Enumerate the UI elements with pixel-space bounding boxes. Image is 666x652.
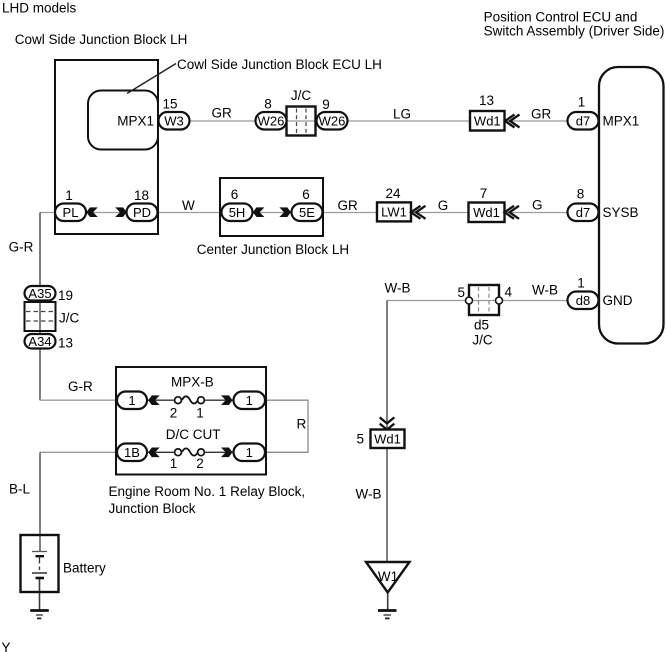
svg-text:MPX1: MPX1 <box>603 114 640 129</box>
svg-text:15: 15 <box>162 97 177 112</box>
ground below battery <box>30 609 49 612</box>
chevrons right of LW1 <box>411 206 426 219</box>
svg-text:Junction Block: Junction Block <box>109 501 196 516</box>
arrow pair D/C CUT <box>148 448 160 458</box>
svg-text:1: 1 <box>65 188 73 203</box>
svg-text:PL: PL <box>63 205 79 220</box>
arrow pair MPX-B <box>148 395 160 405</box>
leader line to Cowl Side Junction Block ECU LH <box>127 64 176 94</box>
svg-text:R: R <box>297 417 307 432</box>
block Engine Room No.1 Relay Block <box>116 367 266 475</box>
wire row3 W-B (x387 to d8) <box>387 300 568 302</box>
connector d7 pin 8 <box>568 204 599 222</box>
svg-text:8: 8 <box>577 187 585 202</box>
svg-text:13: 13 <box>479 93 494 108</box>
svg-text:5: 5 <box>458 285 466 300</box>
connector 5E pin 6 <box>292 204 323 222</box>
svg-text:9: 9 <box>322 97 330 112</box>
svg-text:5H: 5H <box>229 205 246 220</box>
svg-text:Position Control ECU and: Position Control ECU and <box>484 10 638 25</box>
connector A35 pin 19 <box>25 286 56 301</box>
splice Wd1 pin 5 <box>371 430 405 449</box>
J/C junction box top (W26) <box>287 107 316 136</box>
svg-text:W-B: W-B <box>532 283 558 298</box>
svg-text:W1: W1 <box>378 569 398 584</box>
svg-text:d7: d7 <box>576 205 590 220</box>
J/C junction box d5 <box>469 285 499 315</box>
connector PL pin 1 <box>55 204 86 222</box>
ECU MPX1 rounded block inside cowl block <box>88 91 158 150</box>
J/C junction box A35/A34 <box>25 302 56 331</box>
wire battery bottom to ground <box>39 578 41 611</box>
wire R loop <box>266 400 309 452</box>
svg-text:W-B: W-B <box>356 487 382 502</box>
svg-text:d8: d8 <box>576 293 590 308</box>
wire G-R vertical (PL junction down to relay row) <box>39 213 41 401</box>
svg-text:GND: GND <box>603 293 633 308</box>
svg-text:1: 1 <box>196 406 204 421</box>
connector W26 pin 9 <box>317 112 348 130</box>
contact D/C CUT circles and wave <box>175 449 182 456</box>
svg-text:GR: GR <box>338 198 359 213</box>
svg-text:W-B: W-B <box>385 281 411 296</box>
svg-text:13: 13 <box>58 336 73 351</box>
wire relay D/C CUT internal left <box>147 451 175 453</box>
ground symbol below W1 <box>378 609 397 612</box>
contact MPX-B circles and wave <box>175 397 182 404</box>
relay terminal 1B (D/C CUT left) <box>117 444 147 462</box>
chevrons above Wd1 pin5 <box>380 417 395 429</box>
wire W1 apex to ground <box>387 593 389 611</box>
svg-text:5E: 5E <box>299 205 315 220</box>
svg-text:J/C: J/C <box>291 88 312 103</box>
connector PD pin 18 <box>127 204 158 222</box>
splice Wd1 pin 13 (row1) <box>470 111 505 131</box>
svg-text:2: 2 <box>170 406 178 421</box>
svg-text:1: 1 <box>246 393 253 408</box>
connector A34 pin 13 <box>25 334 56 349</box>
svg-text:A34: A34 <box>28 334 51 349</box>
svg-text:Center Junction Block LH: Center Junction Block LH <box>197 242 349 257</box>
connector 5H pin 6 <box>222 204 253 222</box>
relay terminal 1 (D/C CUT right) <box>234 444 266 462</box>
svg-text:Wd1: Wd1 <box>474 114 501 129</box>
arrow pair PL-PD <box>86 207 98 217</box>
connector d8 pin 1 <box>568 292 599 310</box>
chevrons right of Wd1 row2 <box>505 206 520 219</box>
svg-text:LW1: LW1 <box>381 205 407 220</box>
wire relay MPX-B internal right <box>205 399 233 401</box>
svg-text:G-R: G-R <box>9 240 34 255</box>
block Cowl Side Junction Block LH <box>55 60 158 234</box>
svg-text:Battery: Battery <box>63 561 106 576</box>
connector d7 pin 1 <box>568 112 599 130</box>
svg-text:G: G <box>438 198 449 213</box>
svg-text:SYSB: SYSB <box>603 205 639 220</box>
svg-text:5: 5 <box>357 432 365 447</box>
svg-text:19: 19 <box>58 288 73 303</box>
svg-text:1: 1 <box>128 393 135 408</box>
relay terminal 1 (MPX-B left) <box>117 392 147 410</box>
connector W3 pin 15 <box>159 112 190 130</box>
svg-text:A35: A35 <box>28 286 51 301</box>
svg-text:W: W <box>182 198 195 213</box>
svg-text:6: 6 <box>231 187 239 202</box>
svg-text:Cowl Side Junction Block LH: Cowl Side Junction Block LH <box>15 32 188 47</box>
svg-text:W3: W3 <box>164 113 184 128</box>
svg-text:d5: d5 <box>474 318 489 333</box>
wire B-L vertical down to battery <box>39 452 41 551</box>
d5 pin 5 circle <box>466 297 473 304</box>
svg-text:W26: W26 <box>319 113 346 128</box>
svg-text:d7: d7 <box>576 113 590 128</box>
svg-text:Engine Room No. 1 Relay Block,: Engine Room No. 1 Relay Block, <box>109 484 306 499</box>
svg-text:J/C: J/C <box>59 311 80 326</box>
wire W-B vertical (Wd1 pin5 to W1 triangle) <box>386 448 388 562</box>
svg-text:GR: GR <box>531 107 552 122</box>
svg-text:MPX-B: MPX-B <box>171 375 214 390</box>
chevrons right of Wd1 row1 <box>505 115 520 128</box>
svg-text:LG: LG <box>393 107 411 122</box>
svg-text:1: 1 <box>246 445 253 460</box>
block Center Junction Block LH <box>220 178 323 236</box>
svg-text:4: 4 <box>505 285 513 300</box>
svg-text:LHD models: LHD models <box>2 1 77 16</box>
svg-text:PD: PD <box>133 205 151 220</box>
svg-text:Switch Assembly (Driver Side): Switch Assembly (Driver Side) <box>484 24 665 39</box>
arrow pair 5H-5E <box>253 207 265 217</box>
svg-text:Y: Y <box>2 640 11 652</box>
svg-text:G-R: G-R <box>68 379 93 394</box>
svg-text:D/C CUT: D/C CUT <box>166 427 221 442</box>
svg-text:J/C: J/C <box>472 333 493 348</box>
wire row2 W/GR/G (x40 to d7) <box>40 212 568 214</box>
wire relay D/C CUT internal right <box>205 451 233 453</box>
splice Wd1 pin 7 (row2) <box>469 203 505 223</box>
wire relay MPX-B internal left <box>147 399 175 401</box>
svg-text:8: 8 <box>264 97 272 112</box>
block Position Control ECU (right) <box>599 67 664 344</box>
svg-text:6: 6 <box>302 187 310 202</box>
battery B1 <box>21 535 59 592</box>
wire B-L horizontal from relay 1B <box>40 451 117 453</box>
svg-text:2: 2 <box>196 456 204 471</box>
svg-text:B-L: B-L <box>9 482 31 497</box>
svg-text:GR: GR <box>212 106 233 121</box>
svg-text:1: 1 <box>578 95 586 110</box>
svg-text:1B: 1B <box>124 445 140 460</box>
connector W26 pin 8 <box>256 112 287 130</box>
wire G-R horizontal into relay block <box>40 399 117 401</box>
svg-text:Cowl Side Junction Block ECU L: Cowl Side Junction Block ECU LH <box>177 57 382 72</box>
wire W-B vertical (corner to Wd1 pin5) <box>386 301 388 430</box>
svg-text:7: 7 <box>480 186 488 201</box>
ground W1 triangle <box>366 562 410 593</box>
svg-text:24: 24 <box>385 186 401 201</box>
d5 pin 4 circle <box>496 297 503 304</box>
svg-text:MPX1: MPX1 <box>117 114 154 129</box>
svg-text:18: 18 <box>134 188 149 203</box>
svg-text:G: G <box>532 198 543 213</box>
splice LW1 pin 24 <box>377 202 411 221</box>
svg-text:1: 1 <box>577 276 585 291</box>
svg-text:W26: W26 <box>258 113 285 128</box>
svg-text:Wd1: Wd1 <box>473 205 500 220</box>
svg-text:1: 1 <box>170 456 178 471</box>
svg-text:Wd1: Wd1 <box>374 432 401 447</box>
relay terminal 1 (MPX-B right) <box>234 392 266 410</box>
wire row1 GR/LG (W3 to d7) <box>190 120 568 122</box>
